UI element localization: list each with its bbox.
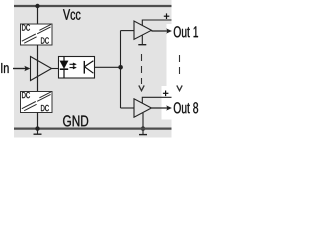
ellipsis dashed arrow (right) [177,55,182,91]
DC/DC converter U1 [21,24,53,45]
net label GND [63,115,88,126]
junction on Vcc rail [35,4,39,8]
+ supply rail channel 1 [142,20,171,26]
junction on GND rail (right) [141,126,145,130]
+ supply rail channel 8 [142,97,171,103]
ground stub left [34,129,42,135]
wire A1 to optocoupler [52,68,59,70]
wire bus to buffer A3 [121,107,135,109]
+ label channel 1 [164,13,170,19]
output label Out 8 [174,102,198,113]
input label In [1,63,8,73]
optocoupler U3 [59,57,95,79]
+ label channel 8 [163,91,169,97]
wire bus to buffer A2 [121,30,135,32]
wire In arrow [13,66,30,72]
DC/DC converter U2 [21,92,53,113]
wire A3 to GND rail [142,113,144,129]
buffer A3 (channel 8) [134,99,151,117]
junction on GND rail (left) [35,126,39,130]
Vcc rail [14,5,172,7]
isolation module body (gray panel) [14,0,200,138]
ground symbol buffer A2 [138,35,146,44]
ellipsis dashed arrow (left) [139,54,144,91]
net label Vcc [63,9,81,19]
buffer A2 (channel 1) [134,21,151,39]
wire optocoupler to bus [95,66,121,68]
wire A2 output arrow [151,28,172,33]
wire U1 through A1 to U2 (isolated supply) [37,45,39,92]
output label Out 1 [174,26,198,37]
junction on bus [118,65,123,70]
ground stub right [139,129,147,135]
wire A3 output arrow [151,105,172,110]
GND rail [14,128,172,130]
bus wire (to all channels) [120,31,122,108]
buffer A1 (input buffer) [31,57,52,81]
wire U2 to GND rail [37,113,39,129]
wire Vcc rail to DC/DC U1 [37,6,39,24]
